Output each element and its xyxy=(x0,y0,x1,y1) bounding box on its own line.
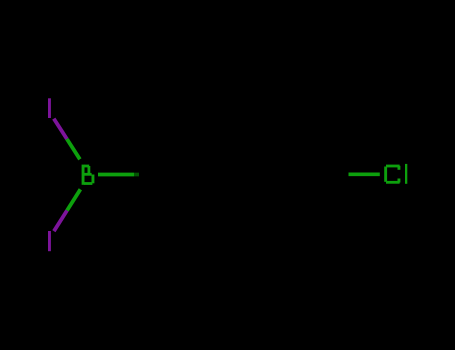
bond B-I1 iodine half (purple) xyxy=(54,119,67,139)
bond B-C1 (boron half, green) xyxy=(98,173,134,177)
atom I1 (top iodine) xyxy=(48,98,51,118)
bond B-C1 fade tail xyxy=(134,173,139,177)
benzene ring C1-C6 (carbon bonds, black on black) xyxy=(168,110,318,240)
bond B-I1 boron half (green) xyxy=(67,139,80,159)
atom I2 (bottom iodine) xyxy=(48,231,51,251)
atom B (boron) xyxy=(82,165,95,185)
bond B-I2 iodine half (purple) xyxy=(54,211,67,232)
bond B-I2 boron half (green) xyxy=(67,189,80,210)
bond C4-Cl (chlorine half, green) xyxy=(349,172,380,176)
atom Cl (chlorine) xyxy=(384,164,407,184)
